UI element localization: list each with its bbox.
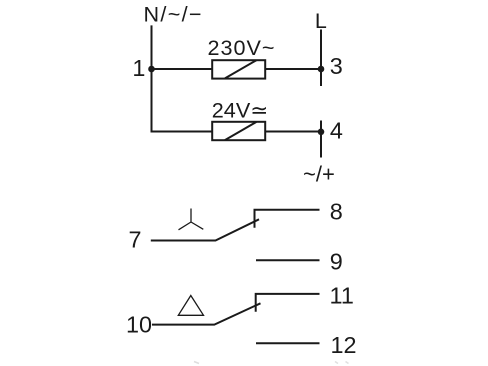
svg-text:11: 11 bbox=[330, 282, 354, 308]
node junction terminal 1 bbox=[148, 66, 155, 73]
terminal 4 rail bbox=[320, 121, 322, 158]
svg-text:24V≃: 24V≃ bbox=[212, 97, 269, 122]
coil 24V box bbox=[212, 122, 265, 140]
coil 24V diagonal bbox=[225, 122, 257, 140]
changeover contact arm 7 bbox=[151, 219, 259, 240]
node terminal 4 bbox=[318, 129, 325, 136]
fixed contact 8 bbox=[255, 210, 320, 228]
svg-text:8: 8 bbox=[330, 198, 343, 224]
node terminal 3 bbox=[318, 66, 325, 73]
terminal 3 rail bbox=[320, 30, 322, 87]
svg-text:~/+: ~/+ bbox=[303, 161, 335, 186]
fixed contact 12 bbox=[256, 342, 320, 344]
delay function symbol triangle bbox=[178, 296, 203, 316]
fixed contact 11 bbox=[256, 294, 320, 312]
wire row1 right bbox=[265, 68, 321, 70]
wire row1 left bbox=[152, 68, 214, 70]
svg-text:N/~/−: N/~/− bbox=[144, 1, 203, 26]
coil 230V box bbox=[212, 60, 265, 78]
svg-text:230V~: 230V~ bbox=[208, 35, 276, 60]
wire row2 right bbox=[265, 131, 321, 133]
svg-text:3: 3 bbox=[330, 53, 343, 79]
svg-text:1: 1 bbox=[132, 55, 145, 81]
svg-text:12: 12 bbox=[330, 332, 356, 358]
coil 230V diagonal bbox=[225, 60, 257, 78]
stray faint mark right bbox=[335, 362, 349, 364]
svg-text:L: L bbox=[315, 9, 327, 33]
changeover contact arm 10 bbox=[152, 303, 261, 324]
wire N rail vertical with corner to 24V row bbox=[152, 25, 213, 131]
svg-text:7: 7 bbox=[128, 226, 141, 252]
svg-text:9: 9 bbox=[330, 248, 343, 274]
svg-text:4: 4 bbox=[330, 118, 343, 144]
relay function symbol bbox=[179, 209, 204, 230]
svg-text:10: 10 bbox=[126, 311, 152, 337]
fixed contact 9 bbox=[256, 259, 320, 261]
stray faint mark left bbox=[194, 362, 199, 364]
